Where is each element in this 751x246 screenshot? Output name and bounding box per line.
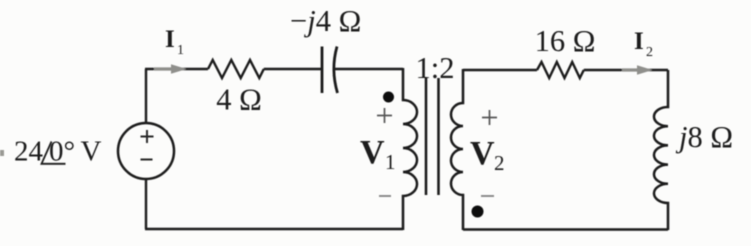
wire bottom secondary horizontal	[463, 228, 668, 230]
svg-text:1: 1	[177, 43, 184, 58]
current arrow I1	[154, 64, 187, 74]
svg-text:V: V	[81, 136, 102, 168]
label 4 Ω	[216, 83, 262, 117]
label −j4 Ω	[290, 4, 361, 38]
wire bottom-left horizontal	[145, 228, 403, 230]
svg-text:V: V	[360, 134, 385, 171]
polarity dot primary	[383, 92, 394, 103]
svg-text:2: 2	[494, 151, 505, 175]
svg-text:0°: 0°	[49, 136, 75, 168]
svg-text:I: I	[165, 26, 175, 53]
wire R2 to corner	[584, 69, 668, 71]
label 1:2 turns ratio	[416, 51, 455, 85]
svg-text:V: V	[470, 135, 495, 172]
wire source top lead	[145, 69, 147, 124]
transformer primary winding L1	[403, 68, 417, 230]
svg-text:4 Ω: 4 Ω	[216, 83, 262, 117]
current arrow I2	[622, 65, 653, 75]
svg-text:−j4 Ω: −j4 Ω	[290, 4, 361, 38]
svg-text:24: 24	[14, 136, 44, 168]
minus sign secondary	[481, 195, 494, 197]
transformer core	[426, 78, 439, 195]
resistor R1 4Ω	[208, 60, 264, 78]
polarity dot secondary	[472, 206, 484, 218]
minus sign primary	[379, 195, 391, 197]
wire source bottom lead	[145, 179, 147, 230]
label I1	[165, 26, 184, 58]
label 24∠0° V	[14, 136, 102, 168]
svg-text:1: 1	[385, 150, 396, 174]
svg-text:j8 Ω: j8 Ω	[675, 120, 733, 154]
plus sign primary	[377, 108, 392, 123]
label V1	[360, 134, 396, 174]
wire between R1 and C1	[264, 68, 322, 70]
transformer secondary winding L2	[451, 69, 463, 230]
wire top secondary to R2	[463, 69, 537, 71]
svg-text:1:2: 1:2	[416, 51, 455, 85]
label I2	[634, 28, 653, 60]
label 16 Ω	[535, 24, 596, 58]
capacitor C1 −j4Ω	[322, 47, 338, 94]
wire C1 to transformer primary	[335, 68, 403, 70]
label j8 Ω	[675, 120, 733, 154]
svg-text:I: I	[634, 28, 644, 55]
svg-text:16 Ω: 16 Ω	[535, 24, 596, 58]
scan artifact left edge	[0, 150, 4, 156]
resistor R2 16Ω	[537, 62, 584, 78]
label V2	[470, 135, 505, 175]
wire top-left horizontal segment	[145, 68, 208, 70]
inductor L3 j8Ω with right vertical wire	[654, 70, 668, 230]
svg-text:2: 2	[646, 45, 653, 60]
voltage source Vs 24∠0°	[118, 123, 174, 179]
plus sign secondary	[482, 110, 497, 125]
